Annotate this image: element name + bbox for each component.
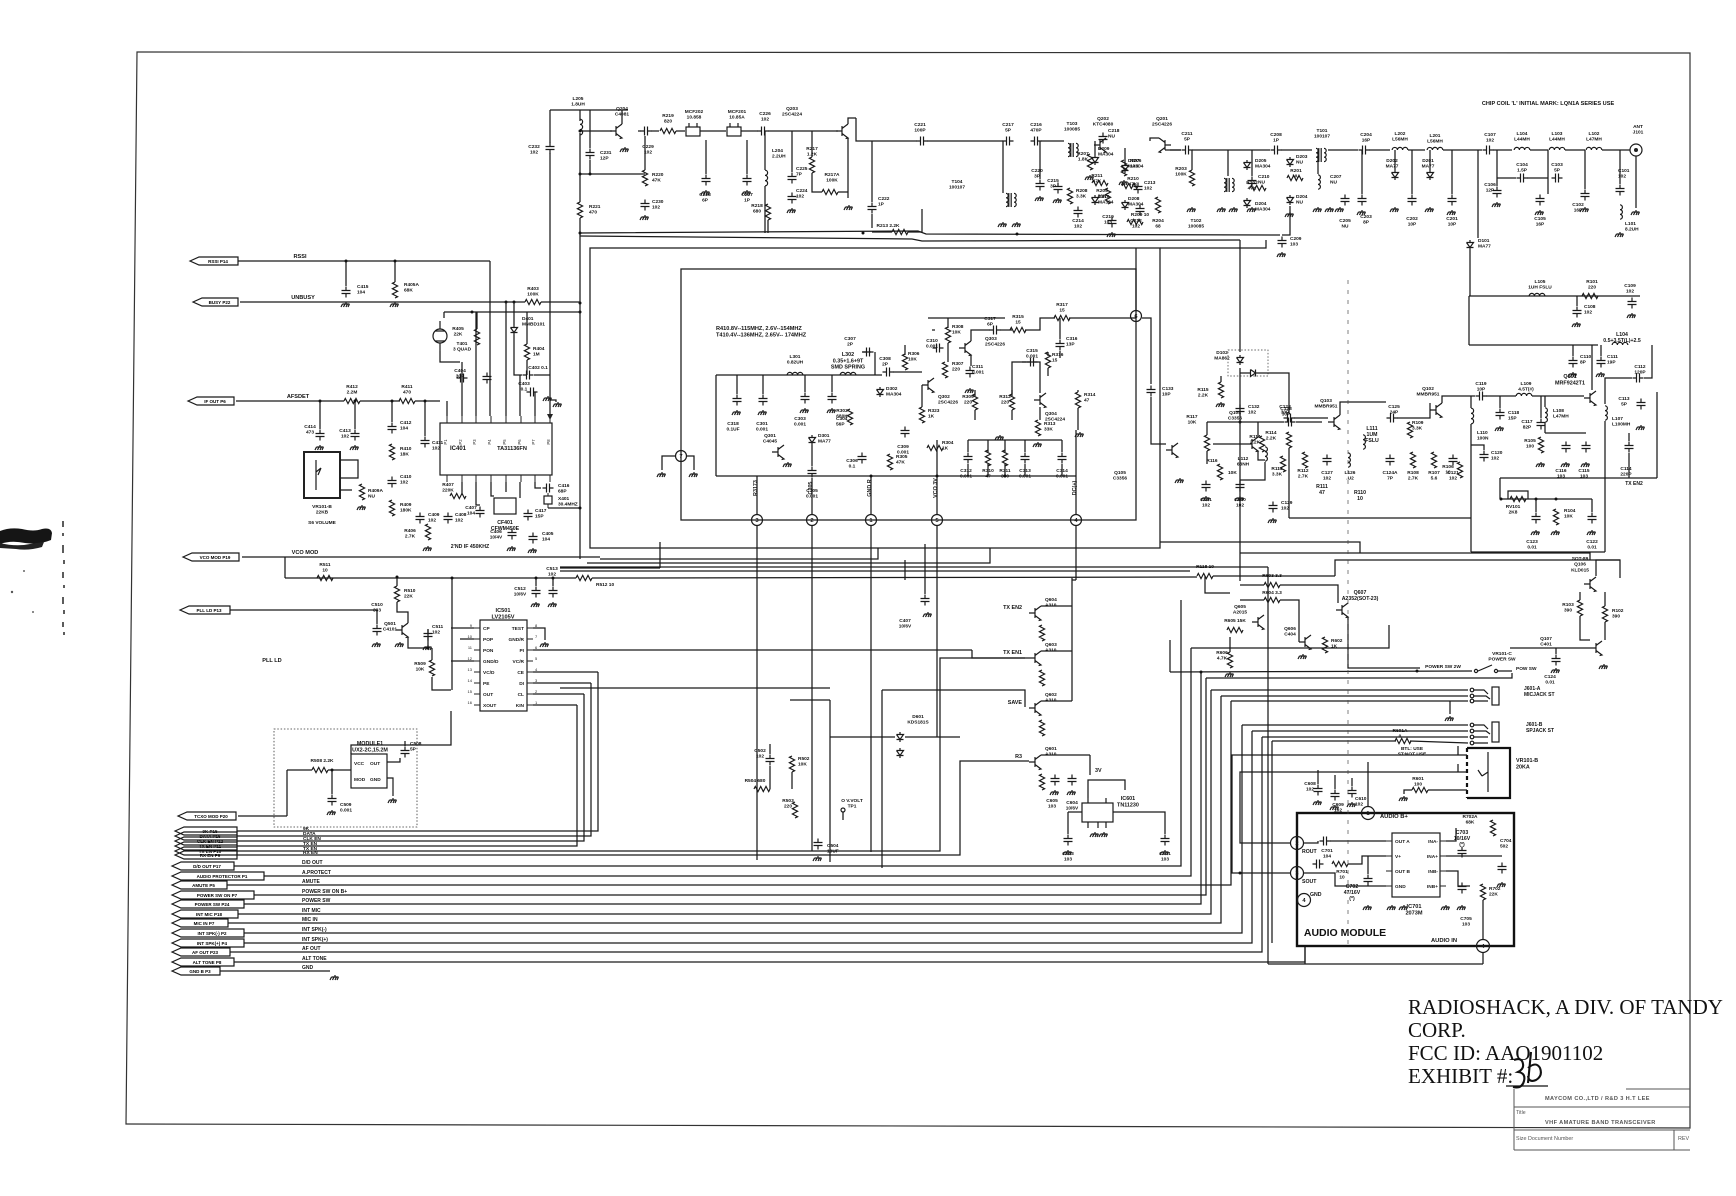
- wire: [541, 301, 580, 303]
- wire: [424, 401, 426, 436]
- wire: [1240, 599, 1264, 601]
- wire: [340, 460, 358, 478]
- wire left audio drop: [1267, 567, 1269, 964]
- wire pin5 stub: [936, 440, 938, 514]
- resistor R309: [972, 394, 977, 410]
- wire R601A line: [1272, 740, 1396, 742]
- wire: [811, 131, 813, 157]
- page fold line: [1347, 280, 1349, 950]
- IC501 lpin: [474, 693, 480, 695]
- capacitor C607: [921, 595, 930, 606]
- capacitor C209: [1278, 237, 1287, 248]
- wire: [1004, 464, 1006, 476]
- wire to micjack: [1211, 689, 1468, 691]
- wire: [534, 374, 550, 376]
- wire: [1206, 422, 1208, 435]
- resistor R504: [754, 786, 770, 791]
- capacitor C129: [1269, 502, 1278, 513]
- wire: [1204, 576, 1206, 585]
- capacitor C405: [529, 533, 538, 544]
- svg-text:GND: GND: [1310, 892, 1322, 898]
- inductor L302: [840, 372, 856, 375]
- wire: [1282, 206, 1290, 235]
- wire: [1428, 789, 1467, 791]
- capacitor C609: [1331, 790, 1340, 801]
- connector D/D OUT P17: [172, 862, 234, 870]
- wire: [534, 392, 536, 416]
- wire: [1410, 741, 1468, 743]
- wire: [1493, 149, 1512, 151]
- svg-text:D202MA77: D202MA77: [1386, 158, 1399, 170]
- capacitor C130: [1236, 481, 1245, 492]
- resistor R407: [450, 493, 466, 498]
- wire: [621, 110, 623, 124]
- capacitor C603: [1064, 835, 1073, 846]
- svg-text:TX EN2: TX EN2: [1625, 481, 1643, 487]
- wire: [811, 445, 813, 466]
- wire: [1240, 372, 1248, 374]
- svg-text:C1041.5P: C1041.5P: [1516, 162, 1528, 174]
- ground C318: [732, 410, 741, 415]
- IC501 lpin: [474, 638, 480, 640]
- junction: [862, 232, 865, 235]
- wire riser741: [1271, 741, 1273, 943]
- ceramic filter CF401: [494, 498, 516, 514]
- capacitor C108: [1573, 307, 1582, 318]
- wire: [1361, 150, 1363, 194]
- wire bus A: [580, 231, 1280, 235]
- ground C303: [800, 408, 809, 413]
- svg-text:C3090.001: C3090.001: [897, 444, 909, 456]
- capacitor C132: [1236, 405, 1245, 416]
- pin circle 7: [676, 451, 687, 462]
- wire: [651, 130, 659, 132]
- wire: [1024, 464, 1026, 476]
- wire pin3 drop: [756, 526, 758, 860]
- svg-text:R40522K: R40522K: [452, 326, 464, 338]
- resistor R316: [1045, 352, 1050, 368]
- capacitor C115: [1582, 442, 1591, 453]
- wire box ext: [1160, 240, 1266, 248]
- resistor R106: [1457, 462, 1462, 478]
- ground L203: [1313, 207, 1322, 212]
- pot box VR101-B: [1467, 748, 1510, 798]
- wire: [1068, 811, 1082, 813]
- wire: [1429, 150, 1431, 170]
- wire: [550, 400, 556, 402]
- wire: [451, 660, 474, 662]
- capacitor C112: [1633, 374, 1644, 383]
- wire: [519, 375, 521, 416]
- wire tx rail1: [1469, 295, 1640, 297]
- wire: [1547, 150, 1549, 194]
- wire: [1213, 443, 1246, 445]
- svg-text:P1: P1: [443, 439, 448, 445]
- svg-text:C3110.001: C3110.001: [972, 364, 984, 376]
- wire: [351, 711, 451, 754]
- wire: [1619, 150, 1621, 184]
- wire RX EN: [237, 761, 1029, 855]
- wire: [1061, 464, 1063, 476]
- wire: [1317, 770, 1319, 784]
- ground module2: [388, 798, 397, 803]
- wire: [1150, 138, 1159, 141]
- capacitor C131: [1202, 481, 1211, 492]
- capacitor C310: [933, 344, 944, 353]
- wire: [1072, 579, 1076, 581]
- capacitor C411: [421, 437, 430, 448]
- svg-text:R1152.2K: R1152.2K: [1197, 387, 1209, 399]
- ground C601: [1160, 850, 1169, 855]
- resistor R203: [1189, 170, 1194, 186]
- wire long563: [587, 548, 990, 563]
- resistor R508: [312, 767, 328, 772]
- capacitor C403: [527, 388, 538, 397]
- ground t2: [1085, 175, 1094, 180]
- capacitor C217: [1003, 137, 1014, 146]
- wire: [1294, 417, 1328, 419]
- wire: [842, 812, 844, 820]
- IC501 rpin: [527, 660, 533, 662]
- wire: [1011, 390, 1013, 396]
- resistor R310: [985, 450, 990, 466]
- svg-text:10: 10: [468, 634, 473, 639]
- svg-text:13: 13: [468, 667, 473, 672]
- wire: [1229, 637, 1231, 652]
- wire: [1206, 451, 1208, 464]
- capacitor C128: [1285, 418, 1296, 427]
- wire: [1165, 149, 1181, 151]
- wire: [1240, 462, 1265, 480]
- wire: [1457, 746, 1459, 755]
- capacitor C604: [1068, 775, 1077, 786]
- wire: [1499, 396, 1501, 408]
- svg-text:C11782P: C11782P: [1521, 419, 1533, 431]
- wire: [548, 507, 580, 509]
- IC701 lpin: [1386, 840, 1392, 842]
- capacitor C202: [1408, 195, 1417, 206]
- wire TX EN2 line: [1500, 477, 1657, 479]
- resistor R209: [1127, 219, 1143, 224]
- junction: [1416, 670, 1419, 673]
- svg-text:CP: CP: [483, 626, 490, 632]
- svg-text:INT SPK(+): INT SPK(+): [302, 937, 328, 943]
- ground T102a: [1217, 207, 1226, 212]
- transistor Q203: [836, 124, 848, 139]
- capacitor C703: [1458, 847, 1467, 858]
- title block frame: [1514, 1089, 1690, 1150]
- inductor L104b: [1612, 342, 1628, 345]
- svg-text:15: 15: [468, 689, 473, 694]
- wire: [1369, 149, 1390, 151]
- svg-text:GND/D: GND/D: [483, 659, 499, 665]
- resistor R701: [1332, 861, 1348, 866]
- ground C228: [701, 190, 710, 195]
- IC401 pin: [446, 416, 448, 423]
- junction: [535, 577, 538, 580]
- svg-text:C5090.001: C5090.001: [340, 802, 352, 814]
- ground C512: [531, 602, 540, 607]
- svg-text:KIN: KIN: [516, 703, 525, 709]
- svg-text:2: 2: [810, 518, 813, 524]
- svg-text:C1220.01: C1220.01: [1586, 539, 1598, 551]
- wire: [705, 140, 707, 174]
- wire: [1039, 407, 1041, 420]
- IC701 rpin: [1440, 885, 1446, 887]
- svg-text:16: 16: [468, 700, 473, 705]
- svg-text:CORP.: CORP.: [1408, 1018, 1466, 1042]
- wire: [700, 130, 726, 132]
- capacitor C133: [1147, 386, 1156, 397]
- svg-text:R20247K: R20247K: [1246, 180, 1258, 192]
- wire: [1340, 402, 1386, 415]
- transistor Q202: [1094, 138, 1106, 153]
- wire: [987, 440, 989, 452]
- IC501 lpin: [474, 649, 480, 651]
- handwritten 3b: [1513, 1052, 1541, 1087]
- wire: [829, 700, 831, 862]
- resistor R702A: [1490, 820, 1495, 836]
- junction: [331, 769, 334, 772]
- capacitor C227: [743, 175, 752, 186]
- svg-text:C3100.001: C3100.001: [926, 338, 938, 350]
- wire: [1600, 345, 1602, 356]
- svg-text:C1240.01: C1240.01: [1544, 674, 1556, 686]
- capacitor C608: [1314, 785, 1323, 796]
- svg-text:PON: PON: [483, 648, 494, 654]
- svg-text:D101MA77: D101MA77: [1478, 238, 1491, 250]
- transistor Q201: [1159, 138, 1171, 153]
- IC401 pin: [549, 416, 551, 423]
- jack J601-B: [1470, 723, 1474, 727]
- wire: [461, 362, 463, 416]
- wire: [947, 318, 949, 328]
- svg-text:R605 15K: R605 15K: [1224, 618, 1246, 624]
- capacitor C407: [476, 507, 485, 518]
- junction: [345, 260, 348, 263]
- wire to micjack2: [1221, 695, 1468, 697]
- svg-text:P3: P3: [472, 439, 477, 445]
- svg-text:R2071.8K: R2071.8K: [1077, 151, 1089, 163]
- junction: [1004, 475, 1007, 478]
- wire to micjack3: [1231, 700, 1468, 702]
- IC501 lpin: [474, 671, 480, 673]
- ground C415: [341, 302, 350, 307]
- wire: [1545, 432, 1586, 434]
- junction: [1239, 421, 1242, 424]
- capacitor C121: [1449, 455, 1458, 466]
- connector P15: [175, 827, 237, 835]
- resistor R311: [1002, 450, 1007, 466]
- capacitor C205: [1341, 195, 1350, 206]
- wire: [638, 130, 641, 132]
- crystal filter MCF202: [686, 127, 700, 136]
- svg-text:INB+: INB+: [1427, 884, 1438, 890]
- wire: [1544, 396, 1546, 407]
- ground p7a: [657, 472, 666, 477]
- junction: [427, 647, 430, 650]
- wire: [746, 140, 748, 174]
- capacitor C122: [1588, 513, 1597, 524]
- resistor R221: [577, 202, 582, 218]
- arrow into IC401: [547, 414, 553, 420]
- ground C704: [1497, 882, 1506, 887]
- scan smudge: [0, 528, 52, 544]
- wire: [1022, 362, 1040, 393]
- capacitor C410: [388, 477, 397, 488]
- wire: [838, 191, 848, 193]
- junction: [1016, 233, 1019, 236]
- resistor R601A: [1395, 738, 1411, 743]
- transformer T102: [1224, 178, 1226, 191]
- wire: [1446, 871, 1470, 886]
- svg-text:INT MIC P18: INT MIC P18: [196, 912, 223, 917]
- wire: [871, 214, 873, 228]
- resistor R304: [927, 445, 943, 450]
- transistor Q104: [1246, 437, 1258, 452]
- wire: [360, 400, 400, 402]
- wire: [1077, 408, 1079, 430]
- svg-text:D102MA862: D102MA862: [1214, 350, 1230, 362]
- wire powsw line: [1170, 671, 1472, 672]
- wire: [1000, 329, 1012, 331]
- wire long567: [560, 566, 1268, 568]
- transistor Q204: [610, 124, 622, 139]
- svg-text:R4062.7K: R4062.7K: [404, 528, 416, 540]
- inductor L202: [1392, 147, 1408, 150]
- svg-text:MIC IN P7: MIC IN P7: [194, 921, 215, 926]
- resistor R117: [1204, 435, 1209, 451]
- ground D202: [1390, 207, 1399, 212]
- quad coil T401: [433, 329, 447, 343]
- resistor R306: [902, 354, 907, 370]
- transistor Q302: [922, 378, 934, 393]
- svg-text:GND: GND: [302, 965, 314, 971]
- wire long571: [560, 570, 1190, 572]
- pot RV101 arrow: [1508, 491, 1528, 499]
- capacitor C119: [1476, 392, 1487, 401]
- capacitor C308: [883, 368, 894, 377]
- svg-text:R504 680: R504 680: [745, 778, 766, 784]
- resistor R201: [1287, 175, 1303, 180]
- wire Q501 collector: [397, 602, 408, 623]
- ground L203b: [1325, 207, 1334, 212]
- inductor L126: [1348, 453, 1350, 467]
- resistor R220: [642, 170, 647, 186]
- capacitor C213: [1134, 183, 1143, 194]
- svg-text:DI: DI: [519, 681, 524, 687]
- capacitor C316: [1056, 340, 1065, 351]
- wire: [1446, 828, 1456, 841]
- wire: [848, 118, 856, 124]
- svg-text:C11910P: C11910P: [1475, 381, 1487, 393]
- wire: [476, 312, 478, 329]
- wire AFSDET: [236, 400, 344, 402]
- wire: [394, 261, 396, 282]
- wire: [286, 770, 288, 816]
- capacitor C101: [1616, 185, 1625, 196]
- wire: [1059, 351, 1061, 358]
- wire: [1069, 317, 1130, 319]
- resistor R511: [317, 575, 333, 580]
- resistor R114b: [1286, 432, 1291, 448]
- wire: [1348, 617, 1420, 668]
- transistor Q105: [1166, 443, 1178, 458]
- wire: [387, 758, 400, 762]
- wire pin3 stub: [756, 476, 758, 514]
- svg-text:GND B P3: GND B P3: [189, 969, 211, 974]
- wire: [1335, 560, 1620, 578]
- wire: [491, 482, 494, 496]
- wire: [579, 133, 581, 202]
- capacitor C210: [1248, 177, 1257, 188]
- capacitor C416: [543, 484, 554, 493]
- pin circle 5: [932, 515, 943, 526]
- wire: [475, 312, 477, 416]
- capacitor C228: [702, 175, 711, 186]
- ground C108: [1572, 322, 1581, 327]
- wire: [1367, 856, 1369, 874]
- wire: [662, 456, 675, 470]
- resistor R102: [1602, 606, 1607, 622]
- wire: [592, 577, 640, 579]
- wire: [1025, 318, 1055, 330]
- wire: [1024, 440, 1026, 452]
- ground C110: [1568, 372, 1577, 377]
- scan speckle: [11, 591, 13, 593]
- transistor Q102: [1430, 403, 1442, 418]
- IC IC701: [1392, 833, 1440, 897]
- wire: [1004, 440, 1006, 452]
- resistor R213: [892, 229, 908, 234]
- resistor R219: [660, 128, 676, 133]
- resistor R503: [792, 802, 797, 818]
- svg-text:GND R: GND R: [867, 479, 873, 496]
- wire pin1 stub: [870, 476, 872, 514]
- wire: [432, 677, 451, 690]
- svg-text:ALT TONE P8: ALT TONE P8: [193, 960, 222, 965]
- audio pin 4g: [1298, 894, 1311, 907]
- IC401 pin: [534, 416, 536, 423]
- wire pin6 up: [1135, 248, 1137, 310]
- capacitor C104: [1517, 174, 1528, 183]
- capacitor C305: [808, 467, 817, 478]
- ground D201: [1425, 207, 1434, 212]
- svg-text:TX EN1: TX EN1: [1003, 650, 1022, 656]
- wire: [762, 375, 764, 394]
- wire CE: [237, 672, 598, 831]
- wire: [1041, 754, 1090, 756]
- inductor L102: [1586, 147, 1602, 150]
- connector PLL LD P13: [180, 606, 230, 614]
- ground R104: [1551, 530, 1560, 535]
- IC601 pins: [1088, 798, 1106, 828]
- resistor R105: [1538, 437, 1543, 453]
- resistor R409: [389, 500, 394, 516]
- ground C406: [507, 546, 516, 551]
- ground C220: [1035, 196, 1044, 201]
- wire VCO MOD: [242, 556, 600, 558]
- svg-text:10K: 10K: [1228, 470, 1237, 476]
- IC401 pin: [475, 416, 477, 423]
- svg-text:R2083.3K: R2083.3K: [1076, 188, 1088, 200]
- junction: [513, 301, 516, 304]
- ground C123: [1531, 530, 1540, 535]
- wire: [972, 650, 1025, 658]
- resistor R217A: [822, 189, 838, 194]
- capacitor C215: [1054, 183, 1063, 194]
- connector GND B P3: [172, 967, 220, 975]
